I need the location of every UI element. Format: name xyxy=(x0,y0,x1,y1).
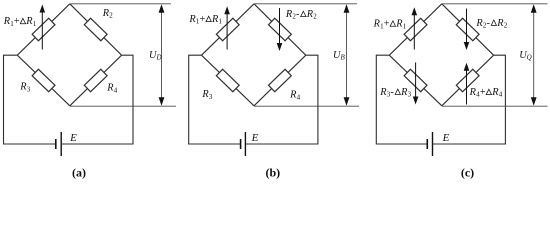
svg-text:(c): (c) xyxy=(461,165,474,179)
svg-text:+: + xyxy=(14,16,20,27)
wire: top-left arm (a) xyxy=(17,4,70,55)
label R4 (a) xyxy=(106,83,118,95)
svg-text:1: 1 xyxy=(403,22,407,30)
svg-text:4: 4 xyxy=(297,93,301,101)
resistor R1 (b) xyxy=(216,18,239,40)
svg-text:UB: UB xyxy=(333,50,345,62)
svg-text:E: E xyxy=(442,132,450,144)
svg-text:3: 3 xyxy=(209,93,213,101)
wire: top-right arm (a) xyxy=(70,4,122,55)
svg-text:E: E xyxy=(251,132,259,144)
battery E plates (c) xyxy=(427,132,432,156)
svg-text:2: 2 xyxy=(313,13,317,21)
wire: left vertex to left rail (a) xyxy=(4,55,18,144)
label R4 (b) xyxy=(289,90,301,102)
arrow: R3 decrease (c) xyxy=(413,63,419,105)
wire: bottom-left arm (b) xyxy=(202,55,255,106)
wire: top output lead (a) xyxy=(70,3,171,5)
resistor R2 (c) xyxy=(456,18,479,40)
resistor R1 (c) xyxy=(404,18,427,40)
battery E plates (a) xyxy=(56,132,61,156)
label UB (b) xyxy=(333,50,345,62)
svg-text:+: + xyxy=(480,87,486,98)
label R2-dR2 (c) xyxy=(475,18,507,30)
wire: top output lead (c) xyxy=(442,3,548,5)
wire: bottom-left arm (a) xyxy=(17,55,70,106)
svg-text:2: 2 xyxy=(504,22,508,30)
resistor R3 (c) xyxy=(404,69,427,91)
resistor R2 (b) xyxy=(269,18,292,40)
wire: bottom rail left of battery (c) xyxy=(376,143,428,145)
resistor R4 (b) xyxy=(269,69,292,91)
label R4+dR4 (c) xyxy=(469,87,503,99)
battery E plates (b) xyxy=(241,132,246,156)
wire: top-left arm (c) xyxy=(389,4,442,55)
resistor R1 (a) xyxy=(32,18,55,40)
arrow: R2 decrease (c) xyxy=(464,9,470,51)
arrow: R1 increase (b) xyxy=(224,6,230,49)
arrow: R4 increase (c) xyxy=(464,63,470,105)
wire: bottom-right arm (a) xyxy=(70,55,122,106)
wire: right rail to right vertex (c) xyxy=(494,55,506,144)
wire: top output lead (b) xyxy=(254,3,357,5)
svg-text:-: - xyxy=(296,9,300,20)
svg-text:3: 3 xyxy=(27,85,31,93)
label R2-dR2 (b) xyxy=(285,9,317,21)
wire: right rail to right vertex (a) xyxy=(122,55,133,144)
wire: bottom rail left of battery (a) xyxy=(3,143,56,145)
resistor R3 (b) xyxy=(216,69,239,91)
svg-text:E: E xyxy=(69,132,77,144)
svg-text:4: 4 xyxy=(114,86,118,94)
svg-text:-: - xyxy=(390,87,394,98)
arrow: R1 increase (c) xyxy=(412,7,418,49)
svg-text:-: - xyxy=(487,18,491,29)
wire: top-right arm (c) xyxy=(442,4,494,55)
wire: bottom output lead (b) xyxy=(254,105,359,107)
svg-text:3: 3 xyxy=(408,91,412,99)
svg-text:1: 1 xyxy=(219,18,223,26)
dimension line UQ (c) xyxy=(531,4,537,105)
wire: bottom rail right of battery (c) xyxy=(433,143,506,145)
label R3 (a) xyxy=(19,82,31,94)
label R3 (b) xyxy=(201,89,213,101)
wire: bottom rail right of battery (a) xyxy=(61,143,133,145)
wire: bottom-left arm (c) xyxy=(389,55,442,106)
wire: bottom output lead (a) xyxy=(70,105,176,107)
svg-text:UD: UD xyxy=(149,50,162,62)
dimension line UB (b) xyxy=(344,4,350,105)
wire: bottom rail right of battery (b) xyxy=(245,143,318,145)
arrow: R2 decrease (b) xyxy=(277,8,283,51)
resistor R4 (c) xyxy=(456,69,479,91)
wire: top-left arm (b) xyxy=(202,4,255,55)
svg-text:+: + xyxy=(200,14,206,25)
wire: bottom-right arm (c) xyxy=(442,55,494,106)
wire: bottom output lead (c) xyxy=(442,105,548,107)
svg-text:1: 1 xyxy=(33,20,37,28)
resistor R2 (a) xyxy=(84,18,107,40)
svg-text:4: 4 xyxy=(499,91,503,99)
svg-text:(b): (b) xyxy=(265,165,280,179)
label R1+dR1 (b) xyxy=(188,14,222,26)
label R3-dR3 (c) xyxy=(379,87,411,99)
wire: bottom-right arm (b) xyxy=(254,55,306,106)
label UD (a) xyxy=(149,50,162,62)
label R1+dR1 (a) xyxy=(3,16,37,28)
svg-text:2: 2 xyxy=(109,12,113,20)
label R2 (a) xyxy=(102,8,114,20)
resistor R4 (a) xyxy=(84,69,107,91)
label R1+dR1 (c) xyxy=(373,19,407,31)
resistor R3 (a) xyxy=(32,69,55,91)
svg-text:+: + xyxy=(384,19,390,30)
wire: left vertex to left rail (c) xyxy=(376,55,389,144)
wire: right rail to right vertex (b) xyxy=(306,55,318,144)
wire: left vertex to left rail (b) xyxy=(189,55,202,144)
svg-text:UQ: UQ xyxy=(519,50,532,62)
dimension line UD (a) xyxy=(159,4,165,105)
wire: top-right arm (b) xyxy=(254,4,306,55)
svg-text:(a): (a) xyxy=(72,165,86,179)
label UQ (c) xyxy=(519,50,532,62)
arrow: R1 increase (a) xyxy=(40,5,46,50)
wire: bottom rail left of battery (b) xyxy=(188,143,241,145)
